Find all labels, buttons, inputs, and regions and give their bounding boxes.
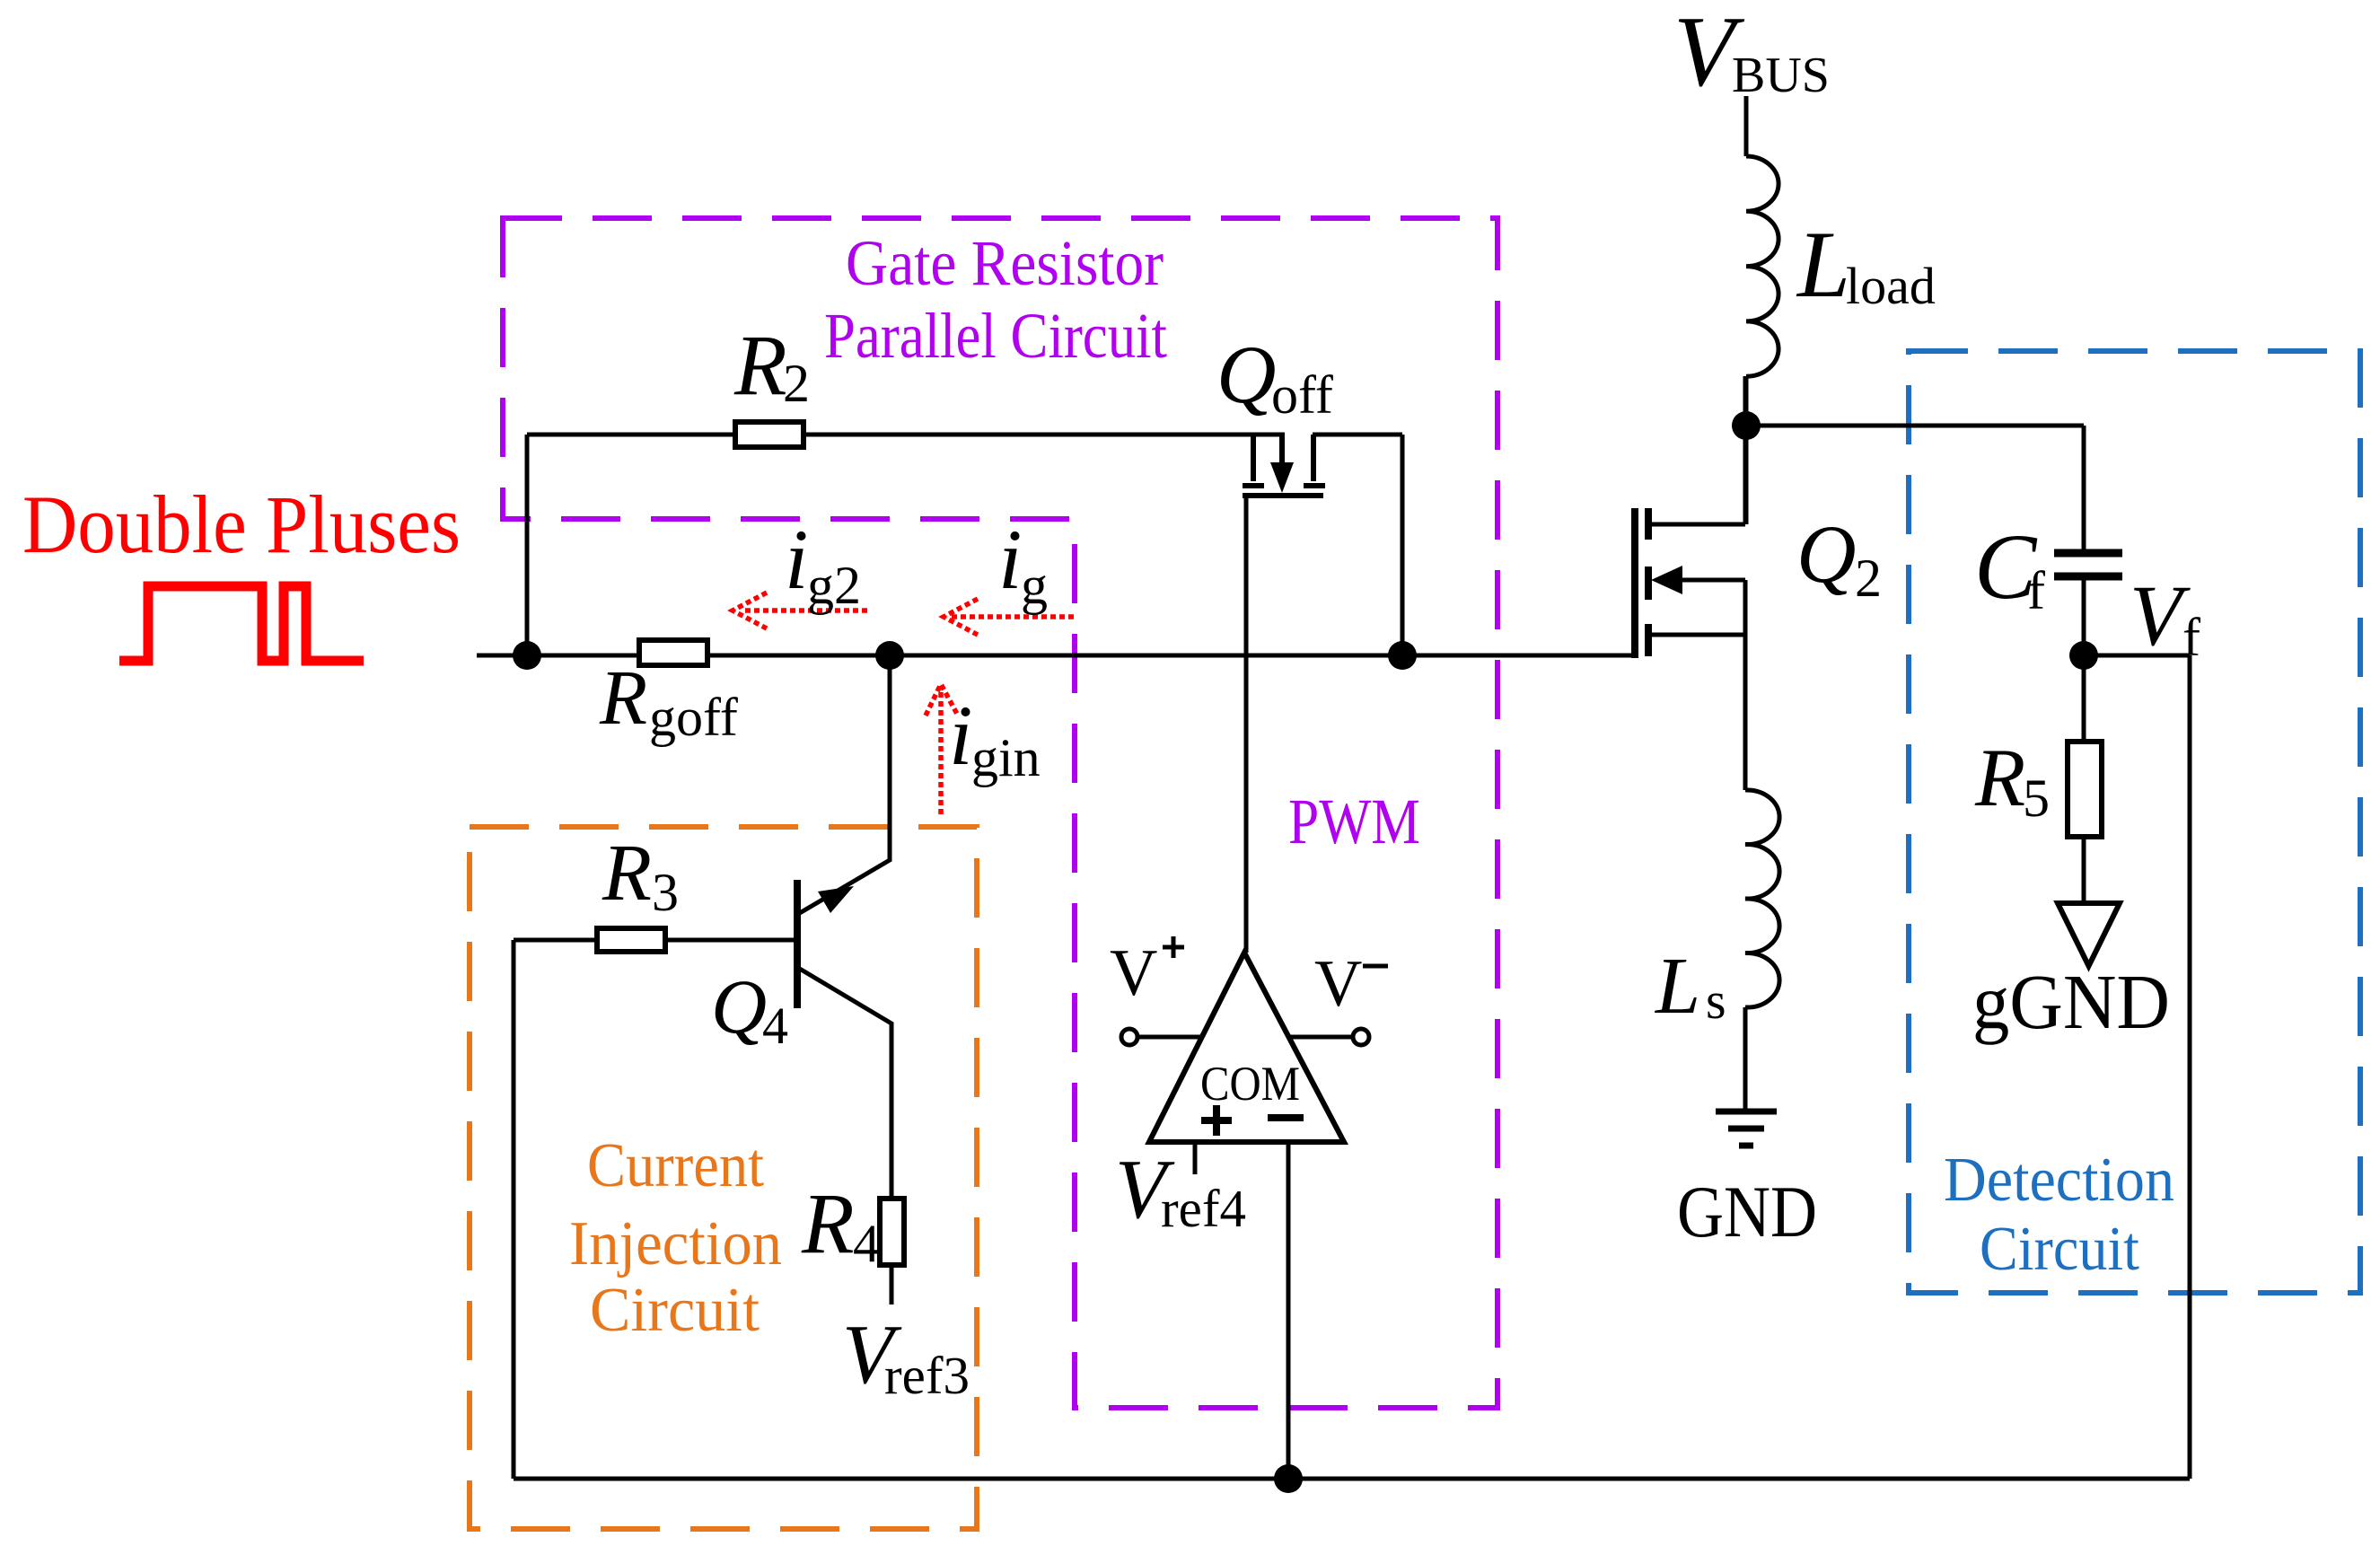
svg-text:R: R — [733, 317, 787, 413]
svg-text:R: R — [1974, 732, 2025, 823]
svg-text:g2: g2 — [807, 556, 861, 615]
svg-text:s: s — [1706, 971, 1726, 1030]
svg-text:load: load — [1846, 257, 1936, 315]
svg-text:Circuit: Circuit — [1980, 1215, 2139, 1284]
svg-text:BUS: BUS — [1732, 48, 1830, 103]
svg-text:4: 4 — [762, 997, 788, 1055]
svg-text:Q: Q — [711, 963, 767, 1050]
svg-text:5: 5 — [2023, 769, 2050, 828]
svg-text:2: 2 — [783, 354, 810, 413]
svg-text:Circuit: Circuit — [590, 1276, 760, 1345]
svg-text:Injection: Injection — [569, 1209, 782, 1278]
svg-text:2: 2 — [1855, 549, 1882, 608]
svg-text:f: f — [2182, 608, 2200, 667]
svg-text:i: i — [998, 512, 1022, 607]
svg-text:GND: GND — [1677, 1171, 1817, 1252]
svg-text:Parallel Circuit: Parallel Circuit — [824, 300, 1167, 372]
svg-text:ref3: ref3 — [884, 1346, 970, 1405]
svg-text:i: i — [949, 688, 972, 783]
svg-text:V: V — [1314, 947, 1362, 1021]
svg-text:g: g — [1021, 556, 1048, 615]
svg-text:R: R — [599, 654, 647, 741]
svg-text:Gate Resistor: Gate Resistor — [846, 227, 1164, 299]
svg-text:Q: Q — [1796, 508, 1856, 600]
svg-text:Current: Current — [587, 1131, 765, 1200]
svg-text:4: 4 — [853, 1214, 880, 1273]
svg-text:Double Pluses: Double Pluses — [22, 479, 461, 570]
svg-text:PWM: PWM — [1288, 786, 1420, 857]
svg-text:off: off — [1271, 365, 1333, 425]
svg-text:L: L — [1796, 212, 1850, 317]
svg-text:i: i — [785, 512, 808, 607]
svg-text:f: f — [2027, 561, 2045, 620]
svg-text:V: V — [1110, 936, 1157, 1010]
svg-text:R: R — [801, 1175, 855, 1271]
svg-text:gGND: gGND — [1972, 958, 2170, 1045]
svg-text:V: V — [2130, 567, 2191, 663]
svg-text:COM: COM — [1200, 1057, 1300, 1111]
svg-text:L: L — [1654, 942, 1700, 1031]
svg-text:Q: Q — [1216, 329, 1276, 420]
svg-text:Detection: Detection — [1944, 1146, 2174, 1215]
svg-text:gin: gin — [971, 728, 1041, 787]
svg-text:R: R — [602, 829, 652, 918]
svg-text:goff: goff — [649, 688, 738, 747]
svg-text:3: 3 — [652, 863, 679, 922]
svg-text:ref4: ref4 — [1161, 1179, 1246, 1238]
